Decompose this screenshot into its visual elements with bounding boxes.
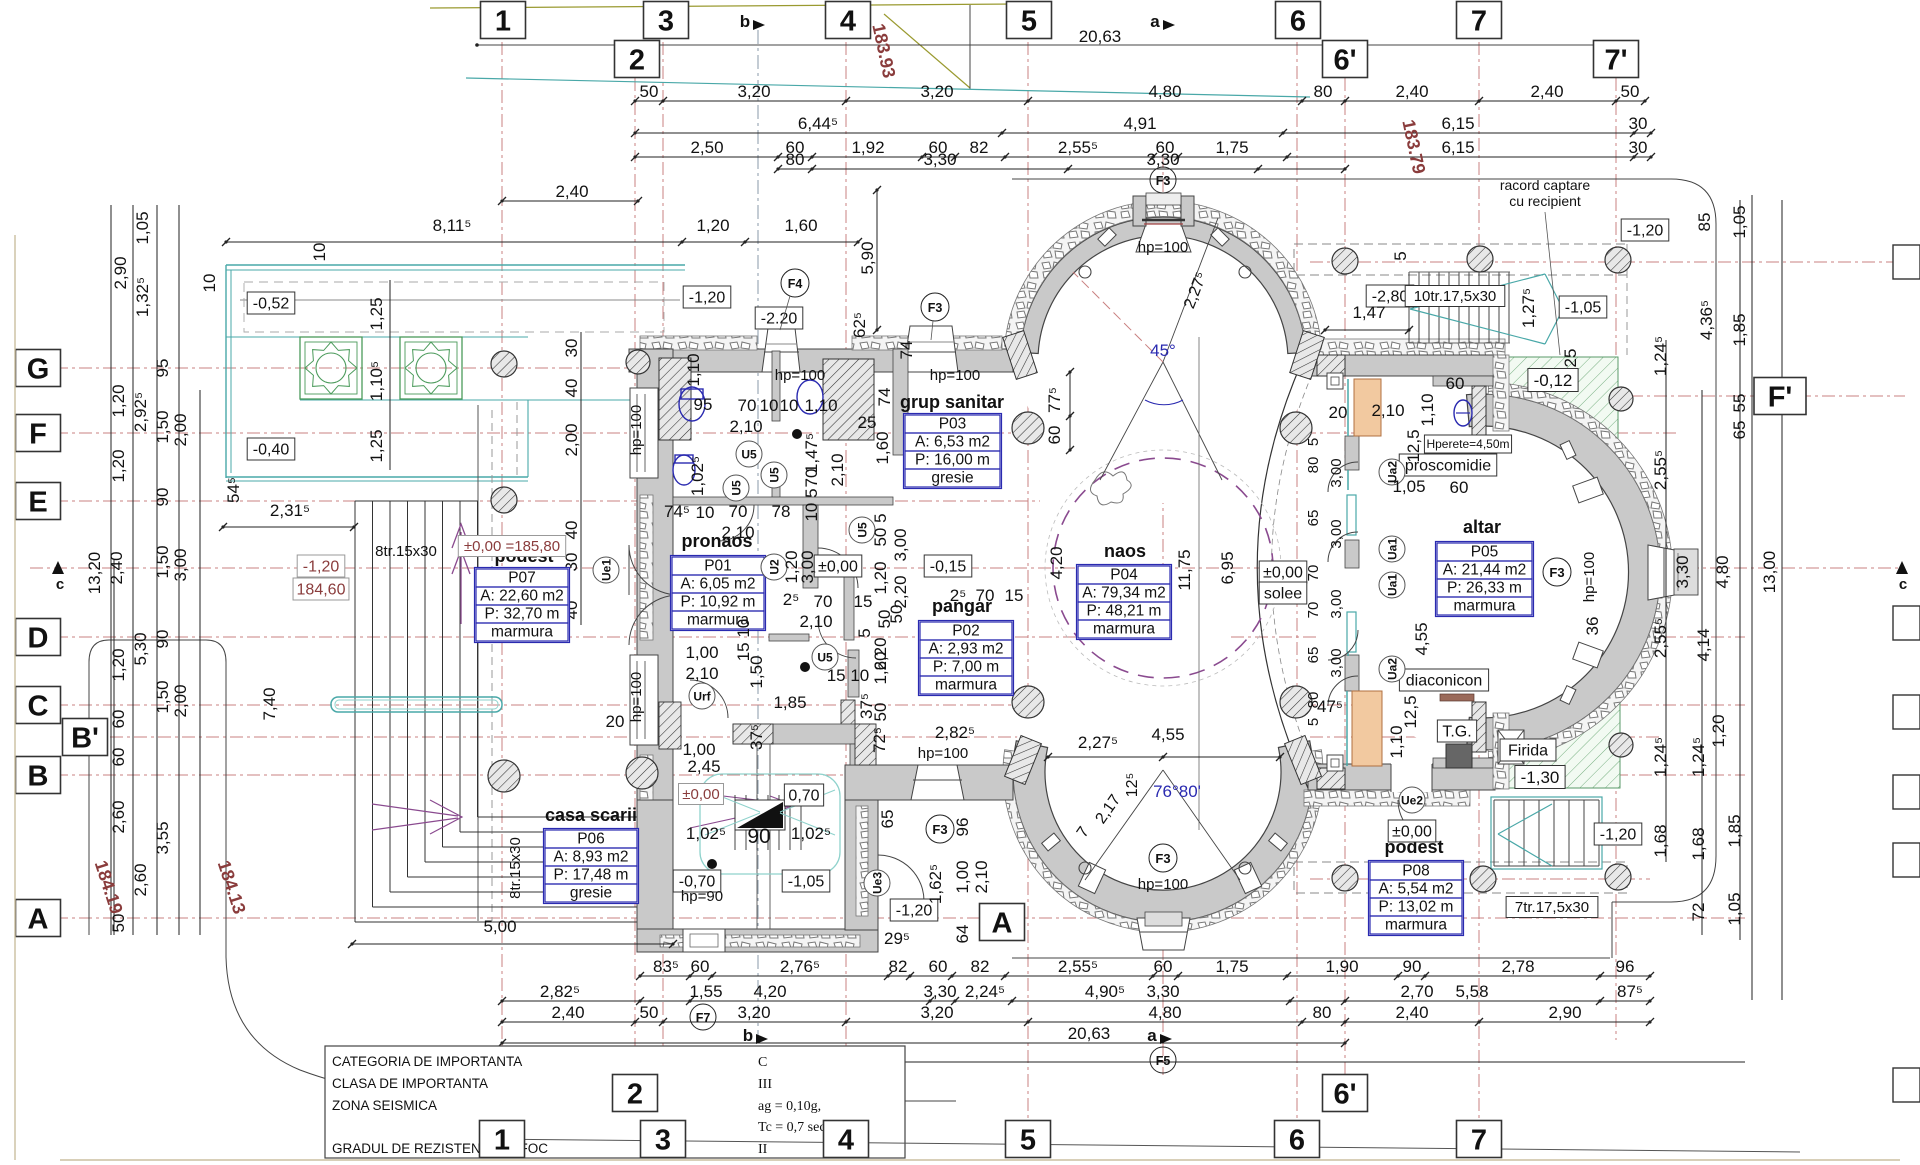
svg-text:A: 21,44 m2: A: 21,44 m2 xyxy=(1443,562,1527,579)
svg-text:P01: P01 xyxy=(704,558,732,575)
svg-text:72: 72 xyxy=(1689,903,1708,922)
svg-text:3,30: 3,30 xyxy=(923,150,956,169)
SE connecting wall xyxy=(1304,790,1470,806)
north apse wall ring xyxy=(1020,217,1306,503)
svg-text:P: 26,33 m: P: 26,33 m xyxy=(1447,580,1522,597)
svg-text:25: 25 xyxy=(858,413,877,432)
door arcs xyxy=(629,545,679,595)
svg-text:diaconicon: diaconicon xyxy=(1406,672,1483,689)
naos dome dashed circle xyxy=(1053,458,1273,678)
svg-text:4,55: 4,55 xyxy=(1412,622,1431,655)
svg-text:5: 5 xyxy=(1305,438,1322,446)
svg-text:1,50: 1,50 xyxy=(153,410,172,443)
svg-text:3: 3 xyxy=(658,5,674,37)
svg-text:80: 80 xyxy=(1313,1003,1332,1022)
svg-text:4,14: 4,14 xyxy=(1694,628,1713,661)
ring window niches small xyxy=(1078,862,1105,893)
svg-text:1,00: 1,00 xyxy=(685,643,718,662)
rosette left xyxy=(300,337,362,399)
svg-text:5: 5 xyxy=(1305,718,1322,726)
svg-text:4,80: 4,80 xyxy=(1148,82,1181,101)
iconostasis xyxy=(1345,436,1359,470)
svg-text:3,30: 3,30 xyxy=(923,982,956,1001)
45 degree lines north xyxy=(1100,362,1222,480)
svg-text:2⁵: 2⁵ xyxy=(950,586,967,605)
svg-text:2: 2 xyxy=(629,44,645,76)
svg-text:2,10: 2,10 xyxy=(729,417,762,436)
dark red levels xyxy=(458,536,565,557)
svg-text:1,24⁵: 1,24⁵ xyxy=(1651,336,1670,376)
svg-text:2,40: 2,40 xyxy=(107,551,126,584)
bottom-right stairs 7tr xyxy=(1493,800,1495,866)
svg-text:60: 60 xyxy=(1154,957,1173,976)
svg-text:marmura: marmura xyxy=(491,624,553,641)
svg-text:82: 82 xyxy=(889,957,908,976)
svg-text:65: 65 xyxy=(1305,510,1322,527)
svg-text:2,50: 2,50 xyxy=(690,138,723,157)
svg-text:1,55: 1,55 xyxy=(689,982,722,1001)
svg-text:A: 8,93 m2: A: 8,93 m2 xyxy=(554,849,629,866)
svg-text:P: 17,48 m: P: 17,48 m xyxy=(554,867,629,884)
svg-text:2,40: 2,40 xyxy=(555,182,588,201)
svg-text:50: 50 xyxy=(109,914,128,933)
svg-text:grup sanitar: grup sanitar xyxy=(900,392,1004,412)
svg-text:2,55⁵: 2,55⁵ xyxy=(1651,450,1670,490)
svg-text:4: 4 xyxy=(838,1124,854,1156)
svg-text:70: 70 xyxy=(1305,602,1322,619)
svg-text:A: 5,54 m2: A: 5,54 m2 xyxy=(1379,881,1454,898)
svg-text:3,20: 3,20 xyxy=(920,82,953,101)
svg-text:2,90: 2,90 xyxy=(111,256,130,289)
svg-text:F3: F3 xyxy=(928,301,943,315)
svg-text:13,00: 13,00 xyxy=(1760,551,1779,594)
svg-text:2,45: 2,45 xyxy=(687,757,720,776)
north niche F3 xyxy=(903,326,958,372)
svg-text:70: 70 xyxy=(802,469,821,488)
svg-text:30: 30 xyxy=(562,339,581,358)
svg-text:2,55⁵: 2,55⁵ xyxy=(1058,957,1098,976)
svg-text:1,75: 1,75 xyxy=(1215,957,1248,976)
svg-text:1,20: 1,20 xyxy=(109,648,128,681)
svg-text:Ue3: Ue3 xyxy=(871,872,885,894)
svg-text:40: 40 xyxy=(562,379,581,398)
svg-text:50: 50 xyxy=(1621,82,1640,101)
svg-text:10: 10 xyxy=(200,274,219,293)
svg-text:P: 10,92 m: P: 10,92 m xyxy=(681,594,756,611)
svg-text:15 10: 15 10 xyxy=(827,666,870,685)
svg-text:1,85: 1,85 xyxy=(773,693,806,712)
svg-text:2,20: 2,20 xyxy=(891,575,910,608)
svg-text:5,00: 5,00 xyxy=(483,917,516,936)
sanitary fixtures blue xyxy=(679,387,705,421)
svg-text:8tr.15x30: 8tr.15x30 xyxy=(507,837,524,899)
svg-text:-1,20: -1,20 xyxy=(1627,222,1664,239)
svg-text:2,27⁵: 2,27⁵ xyxy=(1078,733,1118,752)
svg-text:50 5: 50 5 xyxy=(871,513,890,546)
svg-text:-1,20: -1,20 xyxy=(689,289,726,306)
svg-text:10: 10 xyxy=(696,503,715,522)
svg-text:F3: F3 xyxy=(1549,565,1564,580)
svg-text:3,30: 3,30 xyxy=(1673,555,1692,588)
svg-text:74⁵: 74⁵ xyxy=(664,502,690,521)
svg-text:ZONA SEISMICA: ZONA SEISMICA xyxy=(332,1098,437,1113)
svg-text:184,60: 184,60 xyxy=(297,581,346,598)
svg-text:1,02⁵: 1,02⁵ xyxy=(686,824,726,843)
svg-text:65: 65 xyxy=(1305,647,1322,664)
svg-text:0,70: 0,70 xyxy=(788,787,819,804)
svg-text:74: 74 xyxy=(875,388,894,407)
bottom-right porch xyxy=(1294,862,1627,893)
svg-text:4,91: 4,91 xyxy=(1123,114,1156,133)
svg-text:2,10: 2,10 xyxy=(972,860,991,893)
svg-text:1,60: 1,60 xyxy=(873,431,892,464)
svg-text:P03: P03 xyxy=(939,416,967,433)
svg-text:12,5: 12,5 xyxy=(1404,429,1423,462)
svg-text:C: C xyxy=(28,690,49,722)
svg-text:2,00: 2,00 xyxy=(562,423,581,456)
svg-text:8,11⁵: 8,11⁵ xyxy=(433,216,472,235)
svg-text:F4: F4 xyxy=(788,277,803,291)
svg-text:T.G.: T.G. xyxy=(1442,723,1471,740)
svg-text:P08: P08 xyxy=(1402,863,1430,880)
svg-text:70: 70 xyxy=(729,502,748,521)
svg-text:Tc = 0,7 sec: Tc = 0,7 sec xyxy=(758,1120,826,1135)
svg-text:F3: F3 xyxy=(932,822,947,837)
svg-text:U5: U5 xyxy=(768,467,782,483)
wc partition xyxy=(673,497,893,505)
svg-text:F3: F3 xyxy=(1155,851,1170,866)
svg-text:2,55⁵: 2,55⁵ xyxy=(1651,618,1670,658)
svg-text:4,20: 4,20 xyxy=(1047,546,1066,579)
svg-text:1,24⁵: 1,24⁵ xyxy=(1651,737,1670,777)
svg-text:naos: naos xyxy=(1104,541,1146,561)
svg-text:E: E xyxy=(28,486,47,518)
svg-text:6: 6 xyxy=(1289,1124,1305,1156)
svg-text:F': F' xyxy=(1768,381,1793,413)
svg-text:F3: F3 xyxy=(1156,174,1171,188)
green hatch terraces east xyxy=(1500,357,1618,455)
casa scarii west+south walls xyxy=(637,800,673,952)
svg-text:1,20: 1,20 xyxy=(696,216,729,235)
svg-text:U5: U5 xyxy=(730,480,744,496)
svg-text:marmura: marmura xyxy=(1453,598,1515,615)
svg-text:47⁵: 47⁵ xyxy=(1317,697,1343,716)
svg-text:7tr.17,5x30: 7tr.17,5x30 xyxy=(1515,899,1589,916)
svg-text:2,31⁵: 2,31⁵ xyxy=(270,501,310,520)
svg-text:C: C xyxy=(758,1055,767,1070)
svg-text:P05: P05 xyxy=(1471,544,1499,561)
svg-text:1,90: 1,90 xyxy=(1325,957,1358,976)
svg-text:2,76⁵: 2,76⁵ xyxy=(780,957,820,976)
ring end piers hatched xyxy=(1003,331,1038,380)
svg-text:3,20: 3,20 xyxy=(920,1003,953,1022)
svg-text:50: 50 xyxy=(640,1003,659,1022)
svg-text:1,05: 1,05 xyxy=(1730,205,1749,238)
svg-text:4,55: 4,55 xyxy=(1151,725,1184,744)
svg-text:-1,05: -1,05 xyxy=(788,873,825,890)
svg-text:P04: P04 xyxy=(1110,567,1138,584)
svg-text:marmura: marmura xyxy=(935,677,997,694)
svg-text:62⁵: 62⁵ xyxy=(850,312,869,338)
svg-text:P02: P02 xyxy=(952,623,980,640)
svg-text:1,20: 1,20 xyxy=(1709,714,1728,747)
svg-text:A: 22,60 m2: A: 22,60 m2 xyxy=(480,588,564,605)
svg-text:1,24⁵: 1,24⁵ xyxy=(1689,737,1708,777)
svg-text:B': B' xyxy=(71,722,99,754)
pronaos south wall xyxy=(733,724,874,744)
stair arrow purple xyxy=(452,524,470,624)
svg-text:60: 60 xyxy=(109,710,128,729)
svg-text:30: 30 xyxy=(1629,138,1648,157)
svg-text:2,24⁵: 2,24⁵ xyxy=(965,982,1005,1001)
svg-text:2,78: 2,78 xyxy=(1501,957,1534,976)
svg-text:90: 90 xyxy=(153,630,172,649)
svg-text:3,00: 3,00 xyxy=(1328,589,1345,618)
svg-text:ag = 0,10g,: ag = 0,10g, xyxy=(758,1099,821,1114)
svg-text:6,95: 6,95 xyxy=(1218,551,1237,584)
top-right stairs 10tr xyxy=(1408,272,1410,343)
svg-text:20: 20 xyxy=(606,712,625,731)
svg-text:b: b xyxy=(740,12,750,31)
top-right porch xyxy=(1294,244,1627,275)
svg-text:90: 90 xyxy=(747,825,770,848)
svg-text:6,44⁵: 6,44⁵ xyxy=(798,114,838,133)
svg-text:20: 20 xyxy=(1329,403,1348,422)
svg-text:5: 5 xyxy=(1021,5,1037,37)
svg-text:Ua2: Ua2 xyxy=(1386,658,1400,680)
svg-text:A: 79,34 m2: A: 79,34 m2 xyxy=(1082,585,1166,602)
svg-text:solee: solee xyxy=(1264,585,1302,602)
svg-text:2,70: 2,70 xyxy=(1400,982,1433,1001)
svg-text:1,20: 1,20 xyxy=(871,561,890,594)
svg-text:-1,20: -1,20 xyxy=(1600,826,1637,843)
eaves outline xyxy=(1012,179,1716,902)
right dim columns xyxy=(1665,340,1667,862)
svg-text:60: 60 xyxy=(929,957,948,976)
svg-text:F: F xyxy=(29,418,47,450)
svg-text:1,60: 1,60 xyxy=(784,216,817,235)
svg-text:6': 6' xyxy=(1333,44,1356,76)
south apse wall ring xyxy=(1013,622,1313,922)
svg-text:hp=100: hp=100 xyxy=(1581,552,1598,602)
pier hatched left xyxy=(659,358,691,440)
svg-text:-1,30: -1,30 xyxy=(1521,768,1560,787)
svg-text:1,27⁵: 1,27⁵ xyxy=(1519,288,1538,328)
76 degree lines south xyxy=(1085,770,1240,880)
svg-text:4,36⁵: 4,36⁵ xyxy=(1697,300,1716,340)
svg-text:3,30: 3,30 xyxy=(1146,982,1179,1001)
naos chandelier sketch xyxy=(1090,472,1131,505)
svg-text:Ua1: Ua1 xyxy=(1386,574,1400,596)
left dim columns xyxy=(110,205,112,935)
top dim rows xyxy=(635,100,1645,102)
svg-text:96: 96 xyxy=(953,818,972,837)
svg-text:65: 65 xyxy=(878,810,897,829)
svg-text:60: 60 xyxy=(691,957,710,976)
svg-text:3,55: 3,55 xyxy=(153,821,172,854)
svg-text:72⁵: 72⁵ xyxy=(870,727,889,753)
svg-text:5,30: 5,30 xyxy=(131,632,150,665)
svg-text:3,20: 3,20 xyxy=(737,1003,770,1022)
svg-text:90: 90 xyxy=(1403,957,1422,976)
svg-text:1,92: 1,92 xyxy=(851,138,884,157)
svg-text:10 5: 10 5 xyxy=(802,488,821,521)
svg-text:U5: U5 xyxy=(856,522,870,538)
svg-text:10tr.17,5x30: 10tr.17,5x30 xyxy=(1414,288,1497,305)
svg-text:B: B xyxy=(28,760,49,792)
svg-text:4,80: 4,80 xyxy=(1148,1003,1181,1022)
svg-text:-2.20: -2.20 xyxy=(761,310,798,327)
svg-text:hp=100: hp=100 xyxy=(628,672,645,722)
svg-text:Ue2: Ue2 xyxy=(1401,794,1423,808)
svg-text:7,40: 7,40 xyxy=(260,687,279,720)
svg-text:-0,40: -0,40 xyxy=(253,441,290,458)
svg-text:marmura: marmura xyxy=(1093,621,1155,638)
svg-text:P07: P07 xyxy=(508,570,536,587)
svg-text:74: 74 xyxy=(897,341,916,360)
svg-text:13,20: 13,20 xyxy=(85,552,104,595)
door label circles xyxy=(593,557,619,583)
svg-text:1,25: 1,25 xyxy=(367,429,386,462)
svg-text:1,10: 1,10 xyxy=(684,353,703,386)
svg-text:6,15: 6,15 xyxy=(1441,138,1474,157)
svg-text:CLASA DE IMPORTANTA: CLASA DE IMPORTANTA xyxy=(332,1076,488,1091)
svg-text:4,20: 4,20 xyxy=(753,982,786,1001)
svg-text:altar: altar xyxy=(1463,517,1501,537)
right edge partial boxes xyxy=(1893,245,1920,279)
NE connecting wall xyxy=(1313,339,1505,355)
svg-text:casa scarii: casa scarii xyxy=(545,805,637,825)
svg-text:60: 60 xyxy=(1045,426,1064,445)
svg-text:1,75: 1,75 xyxy=(1215,138,1248,157)
svg-text:A: 2,93 m2: A: 2,93 m2 xyxy=(929,641,1004,658)
svg-text:hp=100: hp=100 xyxy=(628,405,645,455)
svg-text:70: 70 xyxy=(1305,565,1322,582)
svg-text:hp=90: hp=90 xyxy=(681,888,723,905)
interior partitions west block xyxy=(772,351,780,421)
svg-text:30: 30 xyxy=(1629,114,1648,133)
svg-text:1,50: 1,50 xyxy=(153,545,172,578)
F circles xyxy=(1150,167,1176,193)
apse window niches xyxy=(1136,224,1191,252)
svg-text:60: 60 xyxy=(109,748,128,767)
svg-text:3,00: 3,00 xyxy=(171,548,190,581)
svg-text:50: 50 xyxy=(640,82,659,101)
TG dark square xyxy=(1446,744,1472,768)
svg-text:5: 5 xyxy=(855,628,874,637)
svg-text:2,82⁵: 2,82⁵ xyxy=(935,723,975,742)
svg-text:5: 5 xyxy=(1020,1124,1036,1156)
legend table xyxy=(325,1046,905,1158)
svg-text:1,10: 1,10 xyxy=(1387,725,1406,758)
columns hatched circles xyxy=(1012,412,1044,444)
svg-text:1,02⁵: 1,02⁵ xyxy=(791,824,831,843)
svg-text:10: 10 xyxy=(760,396,779,415)
svg-text:2,00: 2,00 xyxy=(171,684,190,717)
svg-text:65: 65 xyxy=(1730,421,1749,440)
svg-text:A: 6,53 m2: A: 6,53 m2 xyxy=(915,434,990,451)
svg-text:2,10: 2,10 xyxy=(799,612,832,631)
svg-text:1,20: 1,20 xyxy=(109,384,128,417)
svg-text:2,60: 2,60 xyxy=(109,800,128,833)
svg-text:60: 60 xyxy=(1450,478,1469,497)
svg-text:4,80: 4,80 xyxy=(1713,555,1732,588)
svg-text:25: 25 xyxy=(1561,349,1580,368)
east wall of west block xyxy=(893,349,908,455)
svg-text:gresie: gresie xyxy=(570,885,612,902)
svg-text:2,60: 2,60 xyxy=(131,863,150,896)
casa scarii east wall xyxy=(845,800,878,930)
svg-text:1,32⁵: 1,32⁵ xyxy=(133,277,152,317)
svg-text:1,47: 1,47 xyxy=(1352,303,1385,322)
svg-text:3,30: 3,30 xyxy=(1146,150,1179,169)
svg-text:1: 1 xyxy=(494,1124,510,1156)
svg-text:Hperete=4,50m: Hperete=4,50m xyxy=(1426,437,1509,451)
svg-text:P06: P06 xyxy=(577,831,605,848)
svg-text:70: 70 xyxy=(738,396,757,415)
svg-text:1,10: 1,10 xyxy=(804,396,837,415)
svg-text:2,40: 2,40 xyxy=(551,1003,584,1022)
svg-text:70: 70 xyxy=(814,592,833,611)
svg-text:marmura: marmura xyxy=(1385,917,1447,934)
svg-text:2,10: 2,10 xyxy=(828,453,847,486)
svg-text:12⁵: 12⁵ xyxy=(1124,773,1141,797)
svg-text:7: 7 xyxy=(1471,1124,1487,1156)
svg-text:P: 16,00 m: P: 16,00 m xyxy=(915,452,990,469)
svg-text:1,05: 1,05 xyxy=(1725,892,1744,925)
west block top wall xyxy=(629,349,1013,372)
svg-text:55: 55 xyxy=(1730,394,1749,413)
grid bubbles left xyxy=(16,350,61,387)
svg-text:2,10: 2,10 xyxy=(685,664,718,683)
svg-text:10: 10 xyxy=(780,396,799,415)
misc top texts xyxy=(389,280,391,470)
svg-text:Ue1: Ue1 xyxy=(600,559,614,581)
svg-text:60: 60 xyxy=(1446,374,1465,393)
svg-text:2,20: 2,20 xyxy=(871,637,890,670)
svg-text:1,05: 1,05 xyxy=(1392,477,1425,496)
svg-text:2,82⁵: 2,82⁵ xyxy=(540,982,580,1001)
svg-text:A: 6,05 m2: A: 6,05 m2 xyxy=(681,576,756,593)
svg-text:6,15: 6,15 xyxy=(1441,114,1474,133)
svg-text:2,40: 2,40 xyxy=(1395,1003,1428,1022)
svg-text:36: 36 xyxy=(1583,617,1602,636)
south entrance niche xyxy=(911,765,964,800)
svg-text:±0,00: ±0,00 xyxy=(682,786,719,803)
svg-text:1,25: 1,25 xyxy=(367,297,386,330)
svg-text:racord captare: racord captare xyxy=(1500,177,1590,193)
svg-text:A: A xyxy=(992,907,1013,939)
svg-text:3,00: 3,00 xyxy=(798,550,817,583)
svg-text:15: 15 xyxy=(1005,586,1024,605)
svg-text:hp=100: hp=100 xyxy=(1138,876,1188,893)
svg-text:2,00: 2,00 xyxy=(171,413,190,446)
svg-text:6': 6' xyxy=(1333,1078,1356,1110)
svg-text:80: 80 xyxy=(1314,82,1333,101)
svg-text:1: 1 xyxy=(495,5,511,37)
casa scarii stair xyxy=(734,795,736,850)
svg-text:5,90: 5,90 xyxy=(858,241,877,274)
svg-text:CATEGORIA DE IMPORTANTA: CATEGORIA DE IMPORTANTA xyxy=(332,1054,522,1069)
svg-text:c: c xyxy=(1899,576,1907,593)
solee arc xyxy=(1257,355,1308,788)
svg-text:82: 82 xyxy=(970,138,989,157)
svg-text:83⁵: 83⁵ xyxy=(653,957,679,976)
svg-text:64: 64 xyxy=(953,925,972,944)
svg-text:96: 96 xyxy=(1616,957,1635,976)
svg-text:2,92⁵: 2,92⁵ xyxy=(131,392,150,432)
svg-text:hp=100: hp=100 xyxy=(1138,239,1188,256)
